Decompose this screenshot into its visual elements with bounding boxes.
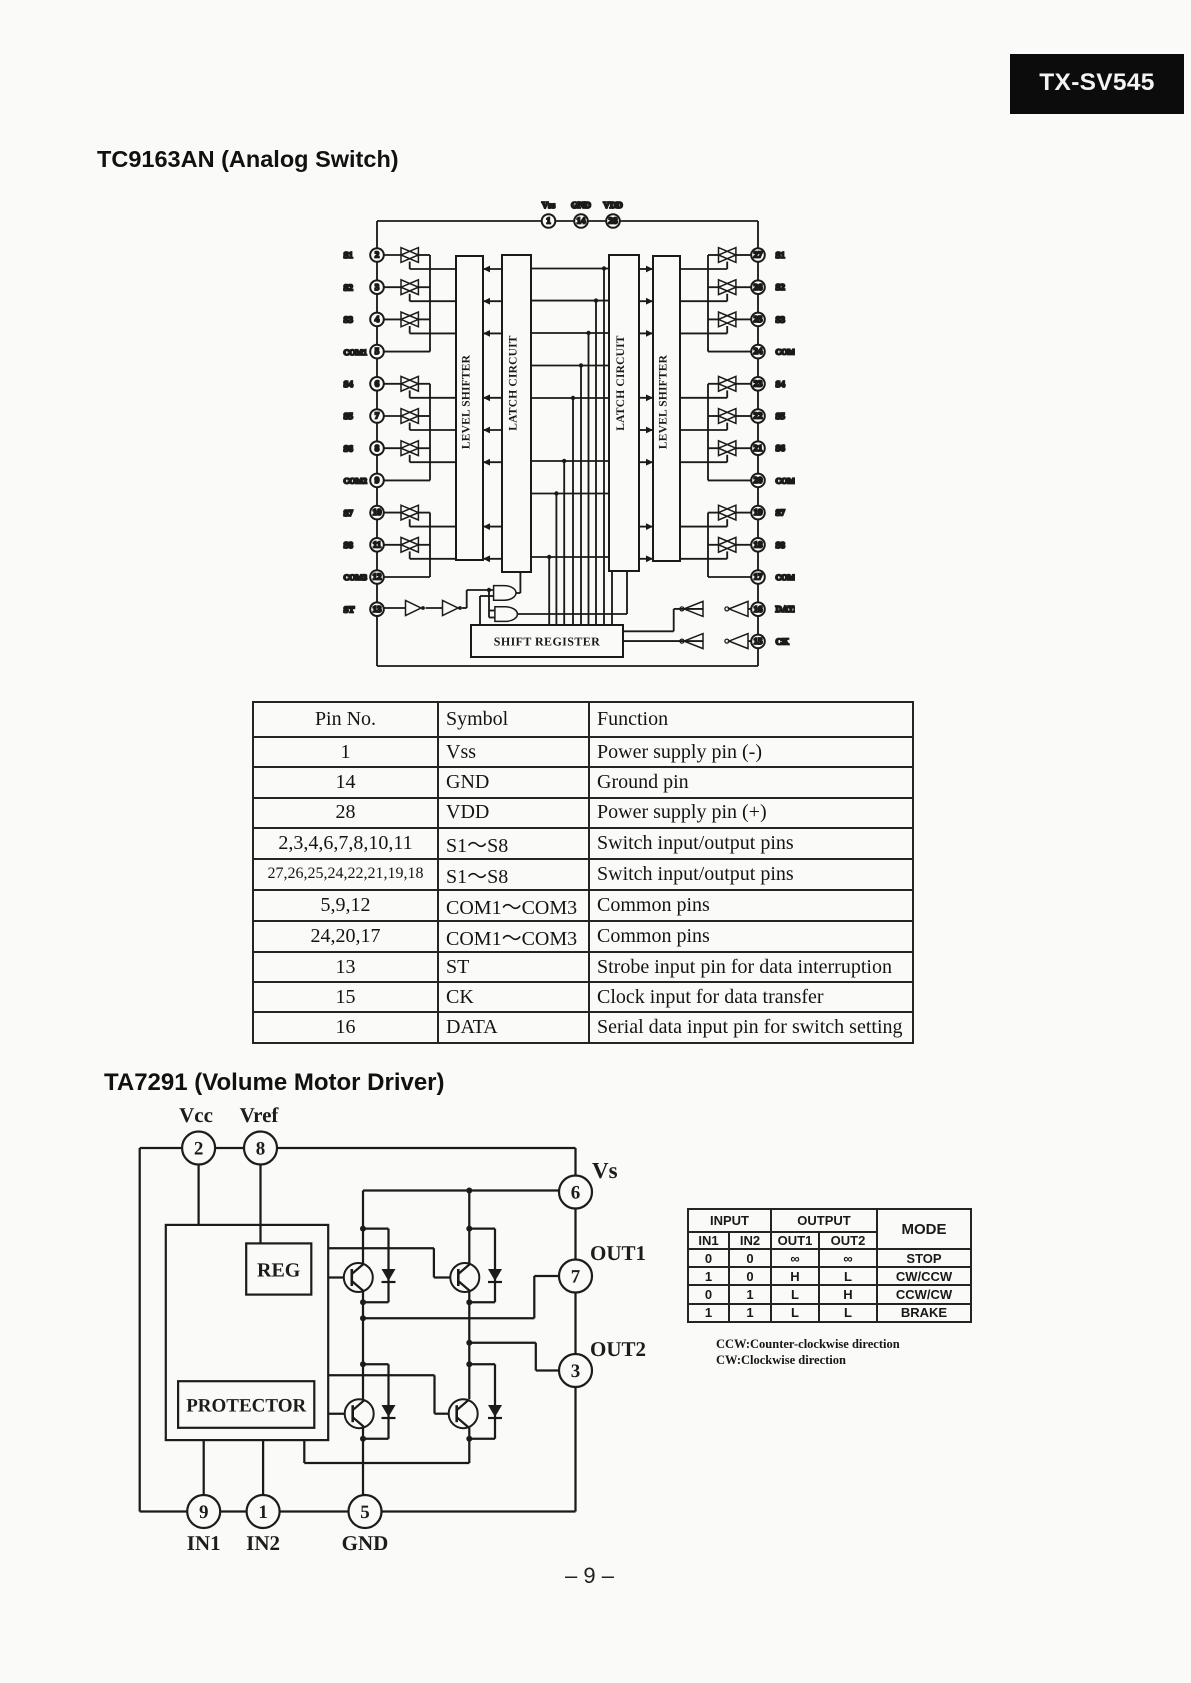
analog switch S8 (left, pin 11) bbox=[384, 537, 456, 558]
pin 5 GND bbox=[349, 1495, 382, 1528]
svg-text:OUT1: OUT1 bbox=[590, 1241, 646, 1265]
wires: latch to level shifter control lines (right, arrows) bbox=[639, 266, 653, 563]
svg-text:S6: S6 bbox=[776, 443, 786, 453]
pin 3 S2 (left) bbox=[370, 280, 384, 294]
analog switch S3 (right, pin 25) bbox=[680, 312, 751, 333]
pin 13 ST (left) bbox=[370, 602, 384, 616]
svg-text:16: 16 bbox=[754, 604, 764, 614]
svg-text:3: 3 bbox=[375, 282, 380, 292]
pin 25 S3 (right) bbox=[751, 313, 765, 327]
svg-text:S7: S7 bbox=[344, 508, 354, 518]
svg-text:LEVEL SHIFTER: LEVEL SHIFTER bbox=[461, 354, 473, 449]
svg-text:S2: S2 bbox=[776, 282, 786, 292]
svg-text:28: 28 bbox=[609, 216, 619, 226]
pin 1 Vss bbox=[542, 214, 556, 228]
analog switch S4 (right, pin 23) bbox=[680, 376, 751, 397]
analog switch S6 (left, pin 8) bbox=[384, 441, 456, 462]
transistor Q2 bbox=[450, 1263, 479, 1292]
diode D2 bbox=[469, 1229, 502, 1303]
buffer ST 2 bbox=[426, 601, 462, 616]
svg-text:7: 7 bbox=[571, 1267, 581, 1288]
svg-text:GND: GND bbox=[342, 1531, 389, 1555]
pin 16 DATA (right) bbox=[751, 602, 765, 616]
pin 4 S3 (left) bbox=[370, 313, 384, 327]
pin 18 S8 (right) bbox=[751, 538, 765, 552]
pin 6 S4 (left) bbox=[370, 377, 384, 391]
wires: latch to level shifter control lines (left, arrows) bbox=[483, 266, 502, 563]
block: IC body bbox=[166, 1225, 328, 1440]
wires: shift register data lines to latches bbox=[531, 266, 609, 625]
svg-text:IN1: IN1 bbox=[187, 1531, 221, 1555]
analog switch S1 (right, pin 27) bbox=[680, 248, 751, 269]
wire: bottom rail bbox=[377, 665, 758, 667]
wire: left COM1 bus (node COM1) bbox=[384, 255, 430, 352]
analog switch S7 (left, pin 10) bbox=[384, 505, 456, 526]
wire: Q2 collector bbox=[466, 1191, 472, 1265]
svg-text:4: 4 bbox=[375, 314, 380, 324]
svg-text:PROTECTOR: PROTECTOR bbox=[186, 1396, 306, 1417]
svg-text:S5: S5 bbox=[776, 411, 786, 421]
analog switch S4 (left, pin 6) bbox=[384, 376, 456, 397]
svg-text:3: 3 bbox=[571, 1361, 581, 1382]
pin 9 IN1 bbox=[187, 1495, 220, 1528]
transistor Q4 bbox=[449, 1399, 478, 1428]
input/output mode truth table bbox=[687, 1208, 972, 1323]
svg-text:12: 12 bbox=[373, 572, 383, 582]
wire: right pin bus bbox=[757, 221, 759, 666]
svg-text:13: 13 bbox=[373, 604, 383, 614]
analog switch S7 (right, pin 19) bbox=[680, 505, 751, 526]
svg-text:15: 15 bbox=[754, 636, 764, 646]
wire: Q1 collector bbox=[360, 1191, 366, 1265]
CCW / CW note bbox=[716, 1336, 900, 1368]
svg-text:18: 18 bbox=[754, 539, 764, 549]
wire: shift register to right latch clock bbox=[611, 571, 613, 625]
svg-text:2: 2 bbox=[194, 1139, 204, 1160]
svg-text:S8: S8 bbox=[344, 540, 354, 550]
svg-text:6: 6 bbox=[375, 378, 380, 388]
page number bbox=[565, 1563, 614, 1589]
svg-text:IN2: IN2 bbox=[246, 1531, 280, 1555]
wire: right COM1 bus (node COM1) bbox=[708, 255, 751, 352]
svg-text:LATCH CIRCUIT: LATCH CIRCUIT bbox=[615, 335, 627, 430]
svg-text:26: 26 bbox=[754, 282, 764, 292]
wire: Vcc top rail pin2-pin8-Vs corner bbox=[182, 1148, 576, 1192]
wire: AND U1 output to left latch bbox=[516, 572, 520, 593]
inverter DATA 1 bbox=[729, 601, 748, 616]
pin 7 OUT1 bbox=[559, 1260, 592, 1293]
block: SHIFT REGISTER bbox=[471, 625, 623, 657]
wire: Q1 base from REG bbox=[311, 1276, 344, 1278]
wire: top power rail bbox=[377, 220, 758, 222]
svg-text:SHIFT REGISTER: SHIFT REGISTER bbox=[494, 635, 600, 649]
AND gate U2 (strobe) bbox=[495, 607, 518, 622]
svg-text:COM3: COM3 bbox=[776, 573, 796, 582]
pin 6 Vs bbox=[559, 1176, 592, 1209]
wire: CK from pin 15 bbox=[748, 640, 751, 642]
diode D1 bbox=[363, 1229, 396, 1303]
wire: pin8 lead inside IC bbox=[259, 1225, 261, 1244]
model number black box TX-SV545 bbox=[1010, 54, 1184, 114]
svg-text:S3: S3 bbox=[344, 315, 354, 325]
svg-text:COM2: COM2 bbox=[776, 476, 796, 485]
pin 8 S6 (left) bbox=[370, 441, 384, 455]
svg-text:10: 10 bbox=[373, 507, 383, 517]
wire: ST input from pin 13 bbox=[384, 607, 406, 609]
svg-text:S8: S8 bbox=[776, 540, 786, 550]
diode D4 bbox=[469, 1364, 502, 1439]
svg-text:24: 24 bbox=[754, 346, 764, 356]
wire: ST to AND gates bbox=[462, 588, 495, 625]
svg-text:COM1: COM1 bbox=[776, 348, 796, 357]
svg-text:9: 9 bbox=[199, 1502, 209, 1523]
svg-text:5: 5 bbox=[360, 1502, 370, 1523]
inverter DATA 2 bbox=[680, 601, 703, 616]
svg-text:25: 25 bbox=[754, 314, 764, 324]
svg-text:GND: GND bbox=[571, 200, 592, 210]
svg-text:S7: S7 bbox=[776, 508, 786, 518]
svg-text:S3: S3 bbox=[776, 314, 786, 324]
wire: Q4 base from IC bbox=[328, 1375, 449, 1413]
pin 3 OUT2 bbox=[559, 1354, 592, 1387]
svg-text:8: 8 bbox=[256, 1139, 266, 1160]
wire: Q2 base from IC bbox=[328, 1248, 450, 1277]
pin 8 Vref bbox=[244, 1132, 277, 1165]
svg-text:DATA: DATA bbox=[776, 604, 796, 614]
analog switch S5 (left, pin 7) bbox=[384, 409, 456, 430]
svg-text:14: 14 bbox=[577, 216, 587, 226]
svg-text:COM3: COM3 bbox=[344, 573, 368, 582]
inverter CK 2 bbox=[680, 634, 703, 649]
svg-text:27: 27 bbox=[754, 250, 764, 260]
wire: right COM2 bus (node COM2) bbox=[708, 384, 751, 481]
svg-text:REG: REG bbox=[257, 1260, 301, 1282]
wire: pin 8 to REG bbox=[259, 1148, 261, 1243]
AND gate U1 (strobe) bbox=[494, 586, 516, 601]
wire: DATA from pin 16 bbox=[748, 608, 751, 610]
pin 7 S5 (left) bbox=[370, 409, 384, 423]
pin 26 S2 (right) bbox=[751, 280, 765, 294]
svg-text:S1: S1 bbox=[776, 250, 786, 260]
pin 21 S6 (right) bbox=[751, 441, 765, 455]
section title TA7291 bbox=[104, 1069, 445, 1097]
svg-text:21: 21 bbox=[754, 443, 764, 453]
svg-text:19: 19 bbox=[754, 507, 764, 517]
pin 22 S5 (right) bbox=[751, 409, 765, 423]
svg-text:1: 1 bbox=[546, 216, 551, 226]
analog switch S6 (right, pin 21) bbox=[680, 441, 751, 462]
svg-text:ST: ST bbox=[344, 604, 355, 614]
pin 23 S4 (right) bbox=[751, 377, 765, 391]
svg-text:20: 20 bbox=[754, 475, 764, 485]
svg-text:23: 23 bbox=[754, 378, 764, 388]
pin 20 COM2 (right) bbox=[751, 474, 765, 488]
svg-text:Vcc: Vcc bbox=[179, 1103, 213, 1127]
wire: right bus Vs/OUT1/OUT2 down to ground rail bbox=[574, 1192, 576, 1512]
wire: left pin bus bbox=[376, 221, 378, 666]
svg-text:Vref: Vref bbox=[240, 1103, 280, 1127]
pin function table bbox=[252, 701, 914, 1044]
svg-text:22: 22 bbox=[754, 411, 764, 421]
analog switch S2 (right, pin 26) bbox=[680, 280, 751, 301]
pin 19 S7 (right) bbox=[751, 506, 765, 520]
svg-text:LATCH CIRCUIT: LATCH CIRCUIT bbox=[508, 335, 520, 430]
wire: Vs rail to transistors Q1 Q2 bbox=[363, 1188, 576, 1194]
pin 2 S1 (left) bbox=[370, 248, 384, 262]
block: PROTECTOR bbox=[178, 1381, 314, 1428]
pin 28 VDD bbox=[606, 214, 620, 228]
wire: CK to shift register bbox=[623, 640, 680, 642]
pin 14 GND bbox=[574, 214, 588, 228]
svg-text:OUT2: OUT2 bbox=[590, 1337, 646, 1361]
svg-text:CK: CK bbox=[776, 636, 790, 646]
pin 5 COM1 (left) bbox=[370, 345, 384, 359]
transistor Q3 bbox=[345, 1399, 374, 1428]
svg-text:S6: S6 bbox=[344, 443, 354, 453]
pin 17 COM3 (right) bbox=[751, 570, 765, 584]
svg-text:VDD: VDD bbox=[603, 200, 623, 210]
wire: left outer loop bbox=[140, 1148, 183, 1512]
analog switch S5 (right, pin 22) bbox=[680, 409, 751, 430]
block: REG bbox=[246, 1243, 311, 1294]
svg-text:5: 5 bbox=[375, 346, 380, 356]
svg-text:6: 6 bbox=[571, 1183, 581, 1204]
buffer ST 1 bbox=[406, 601, 422, 616]
block: LEVEL SHIFTER (left) bbox=[456, 256, 483, 560]
analog switch S8 (right, pin 18) bbox=[680, 537, 751, 558]
wire: left COM3 bus (node COM3) bbox=[384, 513, 430, 577]
block: LATCH CIRCUIT (left) bbox=[502, 255, 531, 572]
wire: Q3 emitter to pin 5 bbox=[360, 1427, 366, 1495]
pin 24 COM1 (right) bbox=[751, 345, 765, 359]
svg-text:COM1: COM1 bbox=[344, 348, 368, 357]
wire: right COM3 bus (node COM3) bbox=[708, 513, 751, 577]
svg-text:S4: S4 bbox=[776, 379, 786, 389]
analog switch S1 (left, pin 2) bbox=[384, 248, 456, 269]
pin 1 IN2 bbox=[247, 1495, 280, 1528]
block: LEVEL SHIFTER (right) bbox=[653, 256, 680, 561]
section title TC9163AN bbox=[97, 146, 399, 173]
pin 12 COM3 (left) bbox=[370, 570, 384, 584]
svg-text:S1: S1 bbox=[344, 250, 354, 260]
wire: pin 9 to IC box bbox=[203, 1440, 205, 1511]
svg-text:Vss: Vss bbox=[542, 200, 556, 210]
svg-text:9: 9 bbox=[375, 475, 380, 485]
wire: Q3 base from PROTECTOR bbox=[328, 1413, 345, 1415]
pin 9 COM2 (left) bbox=[370, 474, 384, 488]
wire: left COM2 bus (node COM2) bbox=[384, 384, 430, 481]
wire: OUT2 to pin 3 bbox=[469, 1343, 575, 1371]
svg-text:2: 2 bbox=[375, 250, 380, 260]
svg-text:S5: S5 bbox=[344, 411, 354, 421]
svg-text:LEVEL SHIFTER: LEVEL SHIFTER bbox=[658, 354, 670, 449]
svg-text:S4: S4 bbox=[344, 379, 354, 389]
wire: OUT1 to pin 7 bbox=[363, 1276, 576, 1318]
svg-text:COM2: COM2 bbox=[344, 477, 368, 486]
transistor Q1 bbox=[344, 1263, 373, 1292]
svg-text:8: 8 bbox=[375, 443, 380, 453]
wire: Q2 emitter / OUT2 node bbox=[466, 1291, 472, 1399]
svg-text:S2: S2 bbox=[344, 282, 354, 292]
svg-text:1: 1 bbox=[258, 1502, 268, 1523]
wire: pin 2 to IC box bbox=[197, 1148, 199, 1225]
inverter CK 1 bbox=[729, 634, 748, 649]
wire: Q1 emitter / OUT1 node bbox=[360, 1291, 366, 1399]
wire: pin 1 to IC box bbox=[262, 1440, 264, 1511]
pin 11 S8 (left) bbox=[370, 538, 384, 552]
pin 27 S1 (right) bbox=[751, 248, 765, 262]
wire: bottom ground rail bbox=[140, 1510, 576, 1512]
svg-text:11: 11 bbox=[373, 539, 382, 549]
pin 2 Vcc bbox=[182, 1132, 215, 1165]
svg-text:17: 17 bbox=[754, 572, 764, 582]
analog switch S3 (left, pin 4) bbox=[384, 312, 456, 333]
svg-text:7: 7 bbox=[375, 411, 380, 421]
pin 15 CK (right) bbox=[751, 635, 765, 649]
wire: AND U2 output to right latch bbox=[517, 571, 627, 614]
analog switch S2 (left, pin 3) bbox=[384, 280, 456, 301]
block: LATCH CIRCUIT (right) bbox=[609, 255, 639, 571]
wire: DATA to shift register bbox=[623, 609, 680, 631]
wire: Q4 emitter return to IC bbox=[304, 1427, 472, 1463]
pin 10 S7 (left) bbox=[370, 506, 384, 520]
svg-text:Vs: Vs bbox=[592, 1158, 618, 1183]
diode D3 bbox=[363, 1364, 396, 1439]
